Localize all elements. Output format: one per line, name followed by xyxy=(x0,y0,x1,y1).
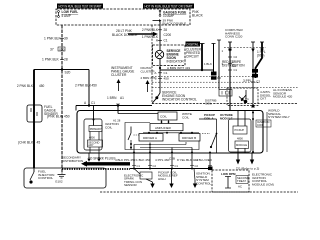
svg-text:DRIVER A: DRIVER A xyxy=(143,136,157,140)
svg-text:CLUSTER: CLUSTER xyxy=(111,73,127,77)
svg-text:C1: C1 xyxy=(175,164,179,168)
svg-text:2 PNK BLK: 2 PNK BLK xyxy=(142,28,159,32)
svg-text:MODULE: MODULE xyxy=(220,116,233,120)
svg-text:COIL: COIL xyxy=(205,101,212,105)
svg-text:CIRCUIT: CIRCUIT xyxy=(186,55,199,59)
svg-text:PICKUP: PICKUP xyxy=(235,128,245,132)
svg-text:COIL: COIL xyxy=(105,126,113,130)
svg-text:1 BLK: 1 BLK xyxy=(204,62,212,66)
svg-text:10 AMP: 10 AMP xyxy=(163,14,174,18)
svg-text:S20: S20 xyxy=(59,47,65,51)
svg-text:DIGITAL: DIGITAL xyxy=(187,43,199,47)
svg-text:ARY: ARY xyxy=(88,143,94,147)
svg-text:4 PPL 460: 4 PPL 460 xyxy=(155,158,170,162)
svg-text:BLACK DOUBLE: BLACK DOUBLE xyxy=(163,21,187,25)
svg-text:SYSTEM ONLY: SYSTEM ONLY xyxy=(268,115,290,119)
svg-text:AC: AC xyxy=(238,185,242,189)
svg-text:CONTROL: CONTROL xyxy=(38,176,53,180)
svg-text:C2: C2 xyxy=(153,164,157,168)
svg-text:3 PPL: 3 PPL xyxy=(243,79,252,83)
svg-text:C1: C1 xyxy=(91,101,95,105)
svg-text:5 AMP: 5 AMP xyxy=(62,14,71,18)
svg-text:1 PNK BLK: 1 PNK BLK xyxy=(42,58,59,62)
svg-text:C1: C1 xyxy=(234,68,238,72)
svg-text:COIL: COIL xyxy=(182,116,190,120)
svg-text:C1: C1 xyxy=(164,71,168,75)
svg-text:2 PNK BLK: 2 PNK BLK xyxy=(17,84,34,88)
svg-text:28: 28 xyxy=(164,28,168,32)
svg-text:(CHK BLK): (CHK BLK) xyxy=(18,141,34,145)
svg-text:DRIVER B: DRIVER B xyxy=(182,136,196,140)
svg-text:C2: C2 xyxy=(232,64,236,68)
svg-text:A BRN WHT 419: A BRN WHT 419 xyxy=(167,66,190,70)
svg-text:A1 28: A1 28 xyxy=(113,118,121,122)
svg-text:(996): (996) xyxy=(257,54,264,58)
svg-text:INDICATOR: INDICATOR xyxy=(167,59,185,63)
svg-text:CONN C220: CONN C220 xyxy=(225,35,243,39)
svg-text:HOT IN RUN, BULB TEST OR START: HOT IN RUN, BULB TEST OR START xyxy=(145,4,193,8)
svg-text:COIL A: COIL A xyxy=(204,116,215,120)
svg-text:C200: C200 xyxy=(164,33,172,37)
svg-text:45: 45 xyxy=(37,141,41,145)
svg-text:1 PNK BLK: 1 PNK BLK xyxy=(44,37,61,41)
svg-text:BLACK: BLACK xyxy=(192,14,204,18)
svg-text:MODULE: MODULE xyxy=(236,143,247,147)
svg-text:39: 39 xyxy=(64,37,68,41)
svg-text:CLUSTER: CLUSTER xyxy=(141,69,156,73)
svg-text:C2: C2 xyxy=(195,164,199,168)
svg-text:C2: C2 xyxy=(256,80,260,84)
svg-text:450: 450 xyxy=(164,77,169,81)
svg-text:1 BLK 450: 1 BLK 450 xyxy=(136,158,151,162)
svg-text:(PNK BLK) 450: (PNK BLK) 450 xyxy=(47,115,70,119)
svg-text:37: 37 xyxy=(50,47,54,51)
svg-text:G102: G102 xyxy=(55,180,63,184)
svg-text:CONTROL: CONTROL xyxy=(196,181,211,185)
svg-text:C1: C1 xyxy=(164,39,168,43)
svg-text:2 PNK BLK: 2 PNK BLK xyxy=(75,84,92,88)
svg-text:TREAT: TREAT xyxy=(237,179,246,183)
svg-text:HIGH: HIGH xyxy=(158,177,166,181)
svg-text:C2B: C2B xyxy=(169,156,175,160)
svg-text:INDICATOR CONTROL: INDICATOR CONTROL xyxy=(162,98,197,102)
svg-text:LOW RPM: LOW RPM xyxy=(221,172,236,176)
svg-text:COIL: COIL xyxy=(257,123,264,127)
svg-text:MODULE 420: MODULE 420 xyxy=(273,95,293,99)
svg-text:450: 450 xyxy=(92,84,98,88)
svg-text:4 BLK PPL 453: 4 BLK PPL 453 xyxy=(115,158,136,162)
svg-text:HOT IN RUN, BULB TEST OR START: HOT IN RUN, BULB TEST OR START xyxy=(59,4,102,8)
svg-text:28: 28 xyxy=(64,58,68,62)
svg-text:TO SPARK PLUGS: TO SPARK PLUGS xyxy=(88,157,116,161)
svg-text:C1: C1 xyxy=(245,97,249,101)
svg-text:C1: C1 xyxy=(137,164,141,168)
svg-text:SENSOR: SENSOR xyxy=(124,183,138,187)
svg-text:4 BLU RED: 4 BLU RED xyxy=(196,158,213,162)
svg-text:A1: A1 xyxy=(120,96,124,100)
svg-text:AMPLIFIER: AMPLIFIER xyxy=(155,126,172,130)
svg-text:450: 450 xyxy=(39,84,45,88)
svg-text:DISTRIBUTION: DISTRIBUTION xyxy=(62,159,83,163)
svg-text:COIL: COIL xyxy=(160,115,167,119)
svg-text:4800: 4800 xyxy=(237,137,243,141)
svg-text:1 BRN: 1 BRN xyxy=(107,96,117,100)
svg-text:MODULE (ICM): MODULE (ICM) xyxy=(252,182,274,186)
svg-text:PRIMARY: PRIMARY xyxy=(90,127,102,131)
svg-text:CKT: CKT xyxy=(260,97,266,101)
svg-text:S20: S20 xyxy=(65,71,71,75)
svg-text:C2: C2 xyxy=(234,55,238,59)
